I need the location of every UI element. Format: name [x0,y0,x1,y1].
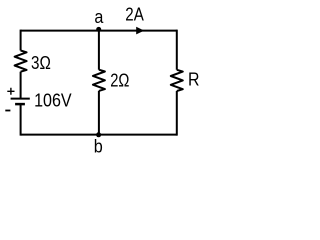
svg-text:R: R [188,70,200,90]
svg-text:106V: 106V [34,90,72,110]
svg-text:b: b [94,137,103,157]
svg-text:3Ω: 3Ω [31,53,51,73]
svg-text:2A: 2A [125,5,144,25]
svg-text:2Ω: 2Ω [110,71,129,91]
svg-text:a: a [94,7,104,27]
